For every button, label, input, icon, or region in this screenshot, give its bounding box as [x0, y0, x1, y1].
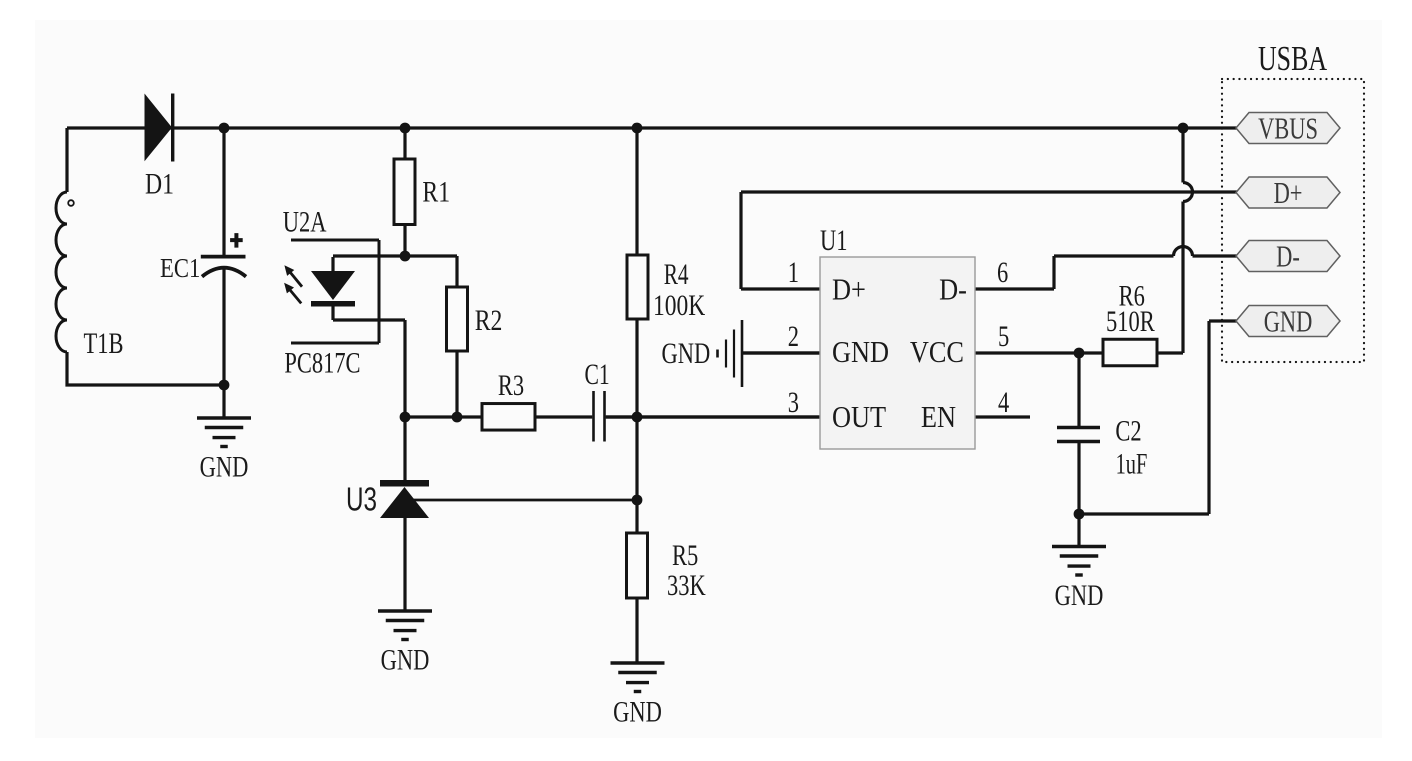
- svg-text:100K: 100K: [653, 288, 706, 321]
- svg-text:2: 2: [788, 319, 799, 353]
- svg-text:GND: GND: [613, 694, 662, 728]
- svg-text:R2: R2: [475, 303, 503, 336]
- svg-text:GND: GND: [1264, 304, 1313, 338]
- svg-text:D-: D-: [939, 273, 967, 307]
- svg-text:6: 6: [997, 255, 1008, 289]
- svg-text:U2A: U2A: [283, 204, 327, 238]
- svg-text:GND: GND: [662, 336, 711, 370]
- svg-text:5: 5: [998, 319, 1009, 353]
- svg-text:VBUS: VBUS: [1258, 111, 1318, 145]
- svg-text:EN: EN: [921, 400, 956, 434]
- svg-text:3: 3: [788, 385, 799, 419]
- svg-text:33K: 33K: [667, 568, 706, 602]
- svg-text:R4: R4: [664, 257, 689, 290]
- svg-text:D+: D+: [1274, 175, 1303, 209]
- svg-text:510R: 510R: [1106, 304, 1155, 338]
- svg-text:T1B: T1B: [83, 326, 123, 360]
- svg-text:D+: D+: [832, 273, 866, 307]
- svg-text:GND: GND: [381, 642, 430, 676]
- svg-text:OUT: OUT: [832, 400, 887, 434]
- svg-text:GND: GND: [832, 335, 889, 369]
- svg-text:4: 4: [998, 385, 1009, 419]
- svg-text:C2: C2: [1115, 413, 1141, 447]
- svg-text:U1: U1: [820, 223, 847, 257]
- svg-text:1uF: 1uF: [1116, 447, 1148, 481]
- svg-text:D1: D1: [145, 167, 174, 200]
- svg-text:USBA: USBA: [1258, 39, 1327, 78]
- svg-text:GND: GND: [1055, 578, 1104, 612]
- svg-text:1: 1: [788, 255, 799, 289]
- svg-text:EC1: EC1: [160, 254, 200, 283]
- svg-text:C1: C1: [584, 358, 609, 391]
- svg-text:R1: R1: [422, 175, 450, 208]
- svg-text:R5: R5: [672, 538, 698, 572]
- svg-text:R3: R3: [498, 368, 524, 402]
- svg-text:VCC: VCC: [910, 335, 964, 369]
- svg-text:GND: GND: [200, 449, 249, 483]
- svg-text:PC817C: PC817C: [284, 345, 360, 379]
- svg-text:U3: U3: [346, 482, 377, 518]
- svg-text:D-: D-: [1276, 239, 1300, 273]
